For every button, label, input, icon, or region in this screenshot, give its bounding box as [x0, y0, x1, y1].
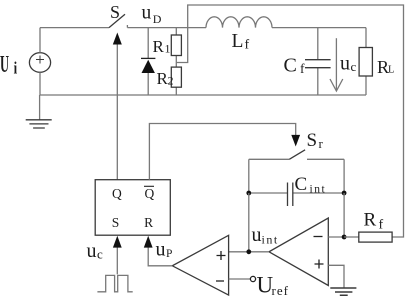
svg-text:u: u [252, 224, 262, 246]
svg-text:L: L [388, 64, 394, 75]
wire Cint right to inverting input [343, 193, 345, 237]
resistor R2 [171, 67, 181, 95]
terminal Uref [250, 276, 255, 281]
node left of Cint [246, 191, 251, 196]
svg-text:2: 2 [168, 74, 174, 88]
label Lf [232, 31, 250, 53]
capacitor Cf [305, 28, 331, 95]
label uc (control) [87, 240, 104, 262]
wire inverting input stub [328, 236, 344, 238]
label Qbar [144, 186, 155, 201]
svg-text:C: C [295, 174, 308, 195]
svg-text:i: i [14, 60, 18, 78]
svg-text:R: R [153, 37, 165, 56]
svg-text:int: int [310, 184, 327, 196]
arrow control up [113, 33, 122, 45]
label up [156, 239, 173, 261]
label R1 [153, 37, 171, 56]
bottom rail [40, 94, 366, 96]
svg-text:Q: Q [145, 186, 155, 201]
diode VD [141, 28, 155, 95]
node uint [246, 249, 251, 254]
arrow up S input [113, 236, 122, 248]
svg-text:c: c [97, 247, 103, 262]
wire Sr right leg [343, 159, 345, 193]
svg-text:Q: Q [112, 186, 122, 201]
arrow up R input [144, 236, 153, 248]
resistor RL [359, 28, 372, 95]
label Rf [364, 210, 384, 233]
label uint [252, 224, 279, 247]
svg-text:R: R [364, 210, 377, 231]
arrow Sr down [291, 135, 300, 147]
voltage source Ui [29, 28, 50, 95]
ground (input) [26, 95, 52, 128]
label Cint [295, 174, 327, 196]
wire noninverting to ground [328, 265, 344, 288]
switch S [109, 14, 206, 27]
wire uint output [229, 251, 269, 253]
wire feedback tap to top rail [176, 5, 403, 237]
svg-text:u: u [142, 2, 152, 23]
label R2 [157, 69, 174, 88]
svg-text:P: P [166, 248, 172, 260]
svg-text:U: U [0, 52, 9, 78]
svg-text:D: D [153, 12, 162, 26]
svg-text:f: f [300, 61, 305, 76]
label Sr [307, 130, 324, 151]
output arrow uc [330, 38, 343, 91]
svg-text:1: 1 [165, 42, 171, 56]
svg-text:c: c [351, 59, 357, 74]
wire after inductor [272, 27, 366, 29]
wire control from Q to switch [116, 44, 118, 180]
wire S input [116, 247, 118, 274]
svg-text:f: f [379, 218, 384, 233]
label RL [377, 57, 394, 77]
label Uref [257, 273, 289, 297]
wire top rail left [40, 27, 109, 29]
op-amp integrator [269, 218, 328, 286]
svg-text:S: S [112, 215, 120, 230]
label uc (output) [340, 53, 357, 75]
switch Sr [249, 150, 344, 160]
label uD [142, 2, 162, 26]
svg-text:C: C [284, 54, 297, 76]
wire Qbar to Sr [149, 124, 295, 180]
label Cf [284, 54, 306, 76]
svg-text:L: L [232, 31, 244, 52]
node at Rf junction [342, 235, 347, 240]
svg-text:u: u [156, 239, 166, 261]
resistor R1 [171, 28, 181, 68]
node right of Cint [342, 191, 347, 196]
wire comparator output to R input [148, 247, 172, 266]
svg-text:int: int [262, 233, 279, 247]
comparator [172, 235, 228, 295]
svg-text:u: u [87, 240, 97, 262]
inductor Lf [206, 17, 272, 28]
pulse waveform [97, 275, 132, 291]
svg-text:S: S [307, 130, 318, 151]
wire Cint left to uint node [248, 193, 250, 252]
wire comparator minus to Uref [229, 278, 251, 280]
flip-flop [95, 180, 170, 236]
svg-text:u: u [340, 53, 350, 75]
svg-text:f: f [245, 38, 250, 53]
wire Sr left leg [248, 159, 250, 193]
svg-text:S: S [110, 2, 120, 22]
ground (op-amp) [330, 288, 356, 295]
svg-text:r: r [319, 136, 324, 151]
capacitor Cint [249, 183, 344, 207]
resistor Rf [344, 232, 392, 242]
svg-text:R: R [144, 215, 153, 230]
svg-text:ref: ref [272, 283, 289, 297]
